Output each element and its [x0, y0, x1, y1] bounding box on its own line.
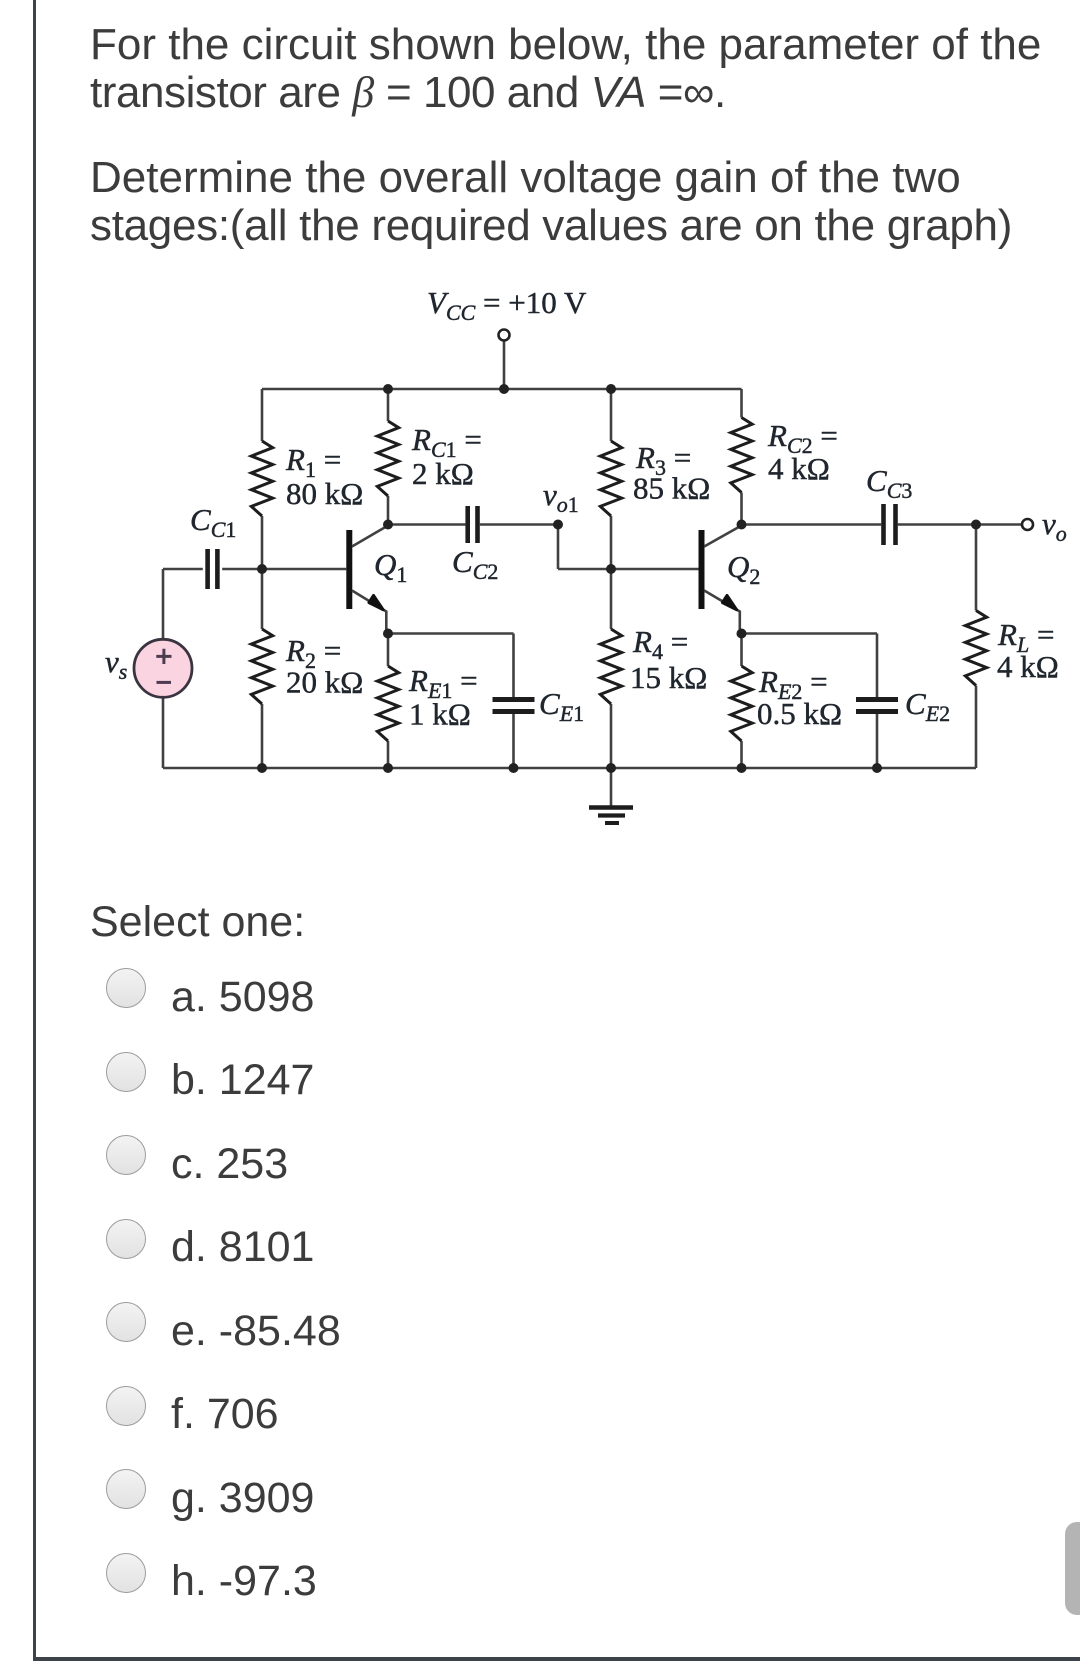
wire emitter 1 row: [388, 634, 514, 769]
node output node vo: [971, 520, 981, 530]
source vs: [134, 639, 192, 697]
resistor RE2: [740, 634, 743, 769]
node CE2 bottom rail: [872, 763, 882, 773]
capacitor Cc2: [465, 506, 470, 543]
svg-text:CE2: CE2: [905, 686, 950, 726]
node Q1 collector: [383, 520, 393, 530]
svg-text:85 kΩ: 85 kΩ: [633, 471, 710, 506]
wire RL column: [975, 525, 978, 769]
resistor R4: [600, 629, 621, 704]
svg-text:15 kΩ: 15 kΩ: [630, 660, 707, 695]
svg-text:vo1: vo1: [543, 477, 579, 517]
svg-text:0.5 kΩ: 0.5 kΩ: [757, 696, 842, 731]
wire RC1 column: [387, 389, 390, 525]
ground: [610, 768, 613, 806]
capacitor CE1: [493, 697, 535, 702]
node R3/R4 junction: [606, 564, 616, 574]
wire RC2 column: [740, 389, 743, 525]
transistor Q1: [346, 530, 352, 609]
resistor RL: [965, 611, 986, 686]
svg-text:4 kΩ: 4 kΩ: [997, 649, 1059, 684]
node RE1 bottom rail: [383, 763, 393, 773]
node R3 top rail: [606, 384, 616, 394]
node CE1 bottom rail: [509, 763, 519, 773]
wire Vcc stub: [503, 341, 506, 390]
node Q2 emitter node: [737, 629, 747, 639]
wire Cc2 row: [388, 523, 558, 526]
node Q2 collector: [737, 520, 747, 530]
svg-text:CE1: CE1: [539, 686, 584, 726]
Vcc terminal: [499, 330, 510, 341]
resistor R3: [600, 441, 621, 516]
node Q1 base node: [257, 564, 267, 574]
node Q1 emitter node: [383, 629, 393, 639]
transistor Q2: [699, 530, 705, 609]
node ground rail: [606, 763, 616, 773]
svg-text:CC1: CC1: [190, 502, 236, 542]
resistor RC1: [377, 421, 398, 496]
resistor RC2: [731, 418, 752, 493]
output terminal: [1022, 519, 1033, 530]
capacitor CE2: [856, 697, 898, 702]
wire emitter 2 row: [742, 634, 878, 769]
svg-text:Q1: Q1: [374, 547, 407, 587]
svg-text:CC3: CC3: [866, 463, 912, 503]
svg-text:vs: vs: [105, 644, 127, 684]
wire base 1: [262, 568, 346, 571]
svg-text:Q2: Q2: [727, 549, 760, 589]
wire top rail: [262, 388, 742, 391]
svg-text:4 kΩ: 4 kΩ: [768, 451, 830, 486]
svg-text:vo: vo: [1042, 506, 1067, 546]
wire vs branch / Cc1: [163, 569, 262, 768]
resistor R2: [251, 629, 272, 704]
svg-text:1 kΩ: 1 kΩ: [409, 697, 471, 732]
node RE2 bottom rail: [737, 763, 747, 773]
svg-text:R4 =: R4 =: [632, 624, 688, 664]
wire left column: [261, 389, 264, 768]
svg-text:20 kΩ: 20 kΩ: [286, 665, 363, 700]
resistor R1: [251, 441, 272, 516]
wire Cc3 row: [742, 523, 1023, 526]
wire R3 column: [610, 389, 613, 768]
svg-text:2 kΩ: 2 kΩ: [412, 456, 474, 491]
svg-text:VCC = +10 V: VCC = +10 V: [427, 285, 587, 325]
wire bottom rail: [163, 767, 976, 770]
svg-text:80 kΩ: 80 kΩ: [286, 476, 363, 511]
svg-text:CC2: CC2: [452, 544, 498, 584]
wire vo1 to Q2 base: [558, 525, 699, 570]
node RC1 top rail: [383, 384, 393, 394]
capacitor Cc1: [205, 549, 210, 589]
node R2 bottom rail: [257, 763, 267, 773]
capacitor Cc3: [881, 504, 886, 545]
resistor RE1: [387, 634, 390, 769]
node node vo1: [553, 520, 563, 530]
node Vcc rail: [499, 384, 509, 394]
